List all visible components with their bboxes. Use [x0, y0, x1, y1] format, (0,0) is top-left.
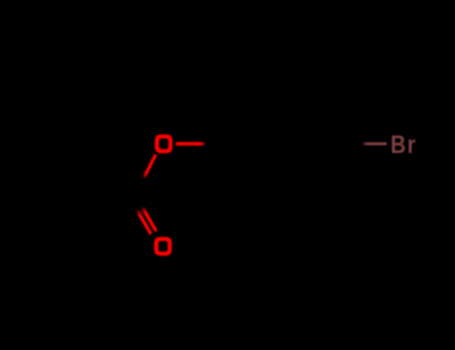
bond O1-C1: oxygen half (red, fading right): [176, 142, 206, 146]
benzene ring C1-C6 (black bonds on black background): [216, 87, 348, 201]
wire: carbon half of O1-C1 ester-aryl bond (black): [202, 142, 216, 145]
vinyl group CH2=CH- (black bonds, invisible): [50, 149, 135, 199]
svg-text:Br: Br: [391, 130, 417, 158]
bond O1-C7: oxygen half (red, fading down-left): [0, 0, 1, 1]
atom label O1 (ester oxygen): [155, 134, 173, 153]
wire: carbon half of C4-Br bond (black): [348, 142, 365, 145]
atom label O2 (carbonyl oxygen): [154, 237, 172, 256]
bond C4-Br: bromine half (maroon, fading left): [362, 142, 387, 145]
double bond C7=O2: oxygen halves (red, fading up): [0, 0, 1, 1]
wire: carbon halves of ester bonds at carbonyl C7 (black): [136, 178, 144, 199]
